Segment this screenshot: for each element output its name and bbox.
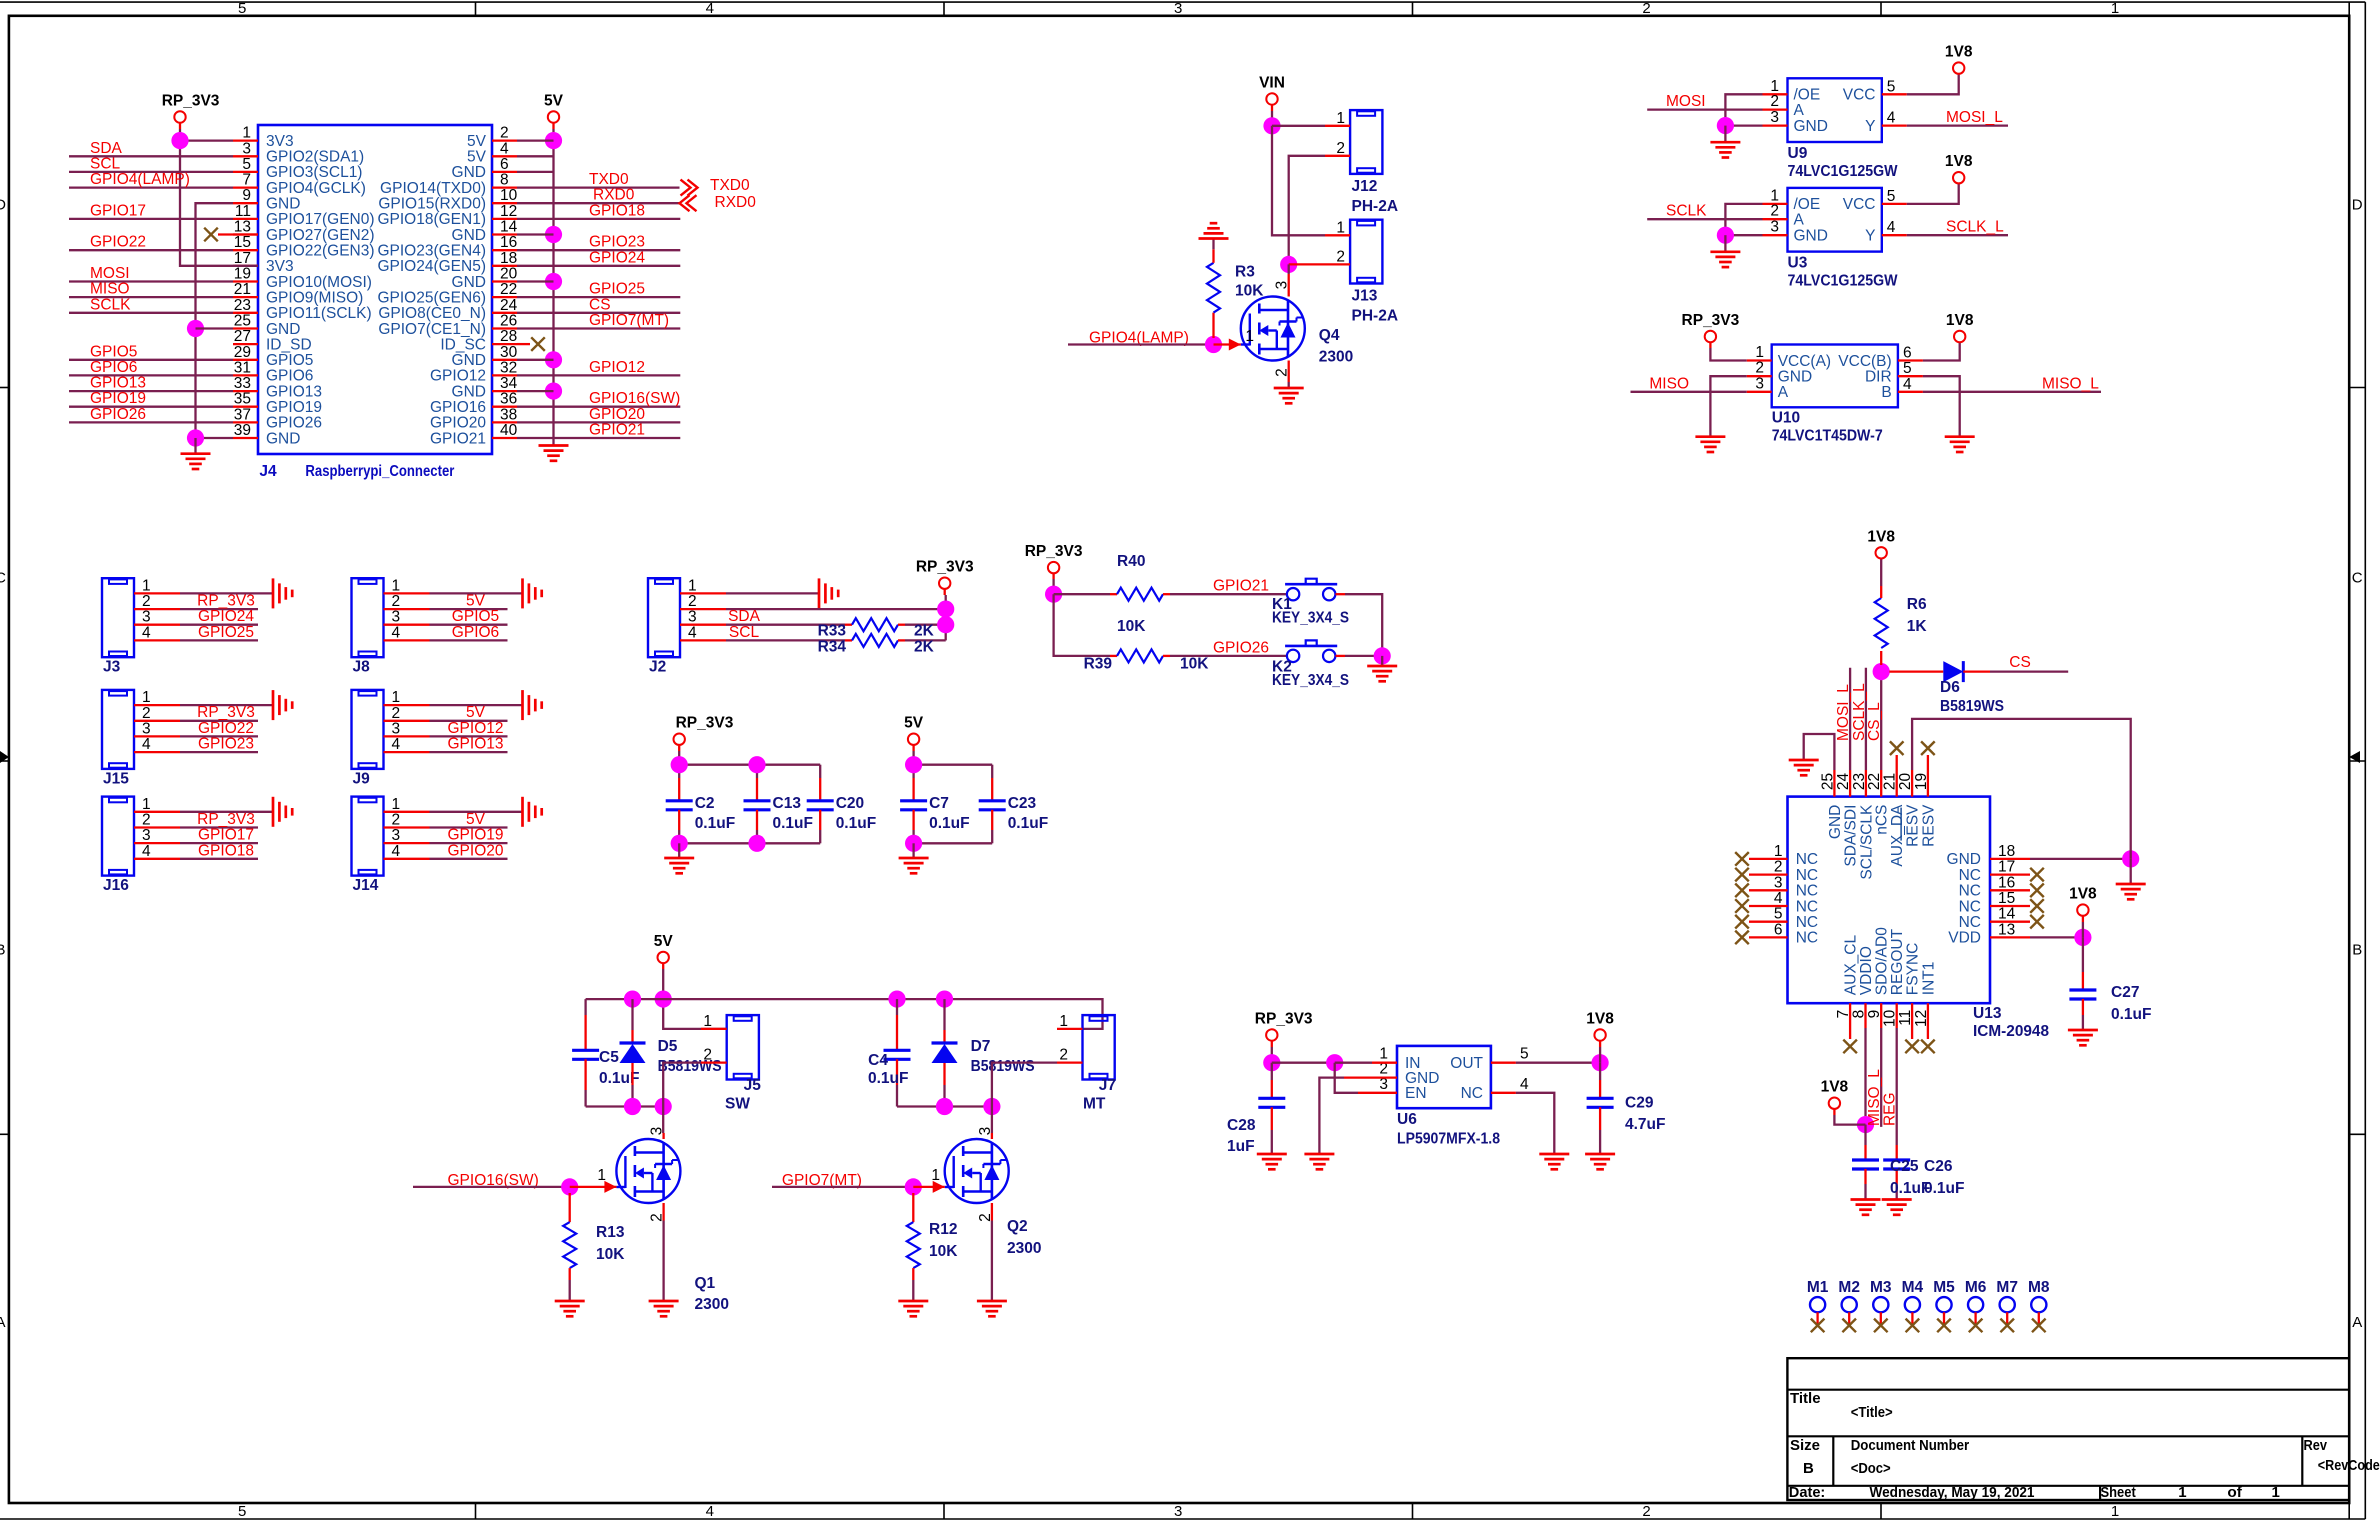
svg-text:B5819WS: B5819WS bbox=[658, 1058, 722, 1075]
svg-text:C27: C27 bbox=[2111, 984, 2139, 1001]
svg-text:20: 20 bbox=[1897, 772, 1914, 790]
svg-text:19: 19 bbox=[234, 266, 251, 283]
svg-text:B5819WS: B5819WS bbox=[971, 1058, 1035, 1075]
svg-text:MOSI_L: MOSI_L bbox=[1946, 109, 2003, 126]
svg-text:J13: J13 bbox=[1352, 288, 1378, 305]
svg-text:U10: U10 bbox=[1772, 410, 1800, 427]
svg-text:2300: 2300 bbox=[1007, 1240, 1041, 1257]
svg-text:A: A bbox=[1794, 102, 1805, 119]
svg-text:1: 1 bbox=[2178, 1484, 2186, 1501]
svg-text:GPIO23: GPIO23 bbox=[589, 234, 645, 251]
svg-text:4: 4 bbox=[392, 624, 401, 641]
svg-text:R13: R13 bbox=[596, 1224, 625, 1241]
svg-text:1: 1 bbox=[1059, 1013, 1068, 1030]
svg-text:C29: C29 bbox=[1625, 1095, 1654, 1112]
svg-text:12: 12 bbox=[1913, 1010, 1930, 1027]
svg-text:GPIO19: GPIO19 bbox=[266, 399, 322, 416]
svg-text:GND: GND bbox=[452, 383, 486, 400]
svg-text:J8: J8 bbox=[353, 659, 371, 676]
svg-text:1: 1 bbox=[392, 796, 401, 813]
svg-text:2: 2 bbox=[1642, 1503, 1650, 1520]
svg-text:B: B bbox=[1881, 384, 1891, 401]
svg-text:2: 2 bbox=[1770, 93, 1779, 110]
svg-text:TXD0: TXD0 bbox=[589, 171, 629, 188]
svg-text:13: 13 bbox=[234, 219, 251, 236]
svg-text:RP_3V3: RP_3V3 bbox=[197, 811, 255, 828]
svg-text:GPIO27(GEN2): GPIO27(GEN2) bbox=[266, 227, 375, 244]
svg-text:30: 30 bbox=[500, 344, 518, 361]
svg-text:GPIO19: GPIO19 bbox=[90, 390, 146, 407]
svg-text:ID_SC: ID_SC bbox=[440, 336, 486, 353]
svg-text:B: B bbox=[0, 942, 6, 959]
svg-text:2300: 2300 bbox=[695, 1296, 729, 1313]
svg-text:18: 18 bbox=[500, 250, 517, 267]
svg-text:2: 2 bbox=[142, 593, 151, 610]
svg-text:GPIO12: GPIO12 bbox=[589, 359, 645, 376]
svg-text:0.1uF: 0.1uF bbox=[773, 815, 813, 832]
svg-text:21: 21 bbox=[234, 281, 251, 298]
svg-text:GND: GND bbox=[1794, 118, 1828, 135]
svg-text:J2: J2 bbox=[649, 659, 666, 676]
svg-text:NC: NC bbox=[1796, 898, 1818, 915]
svg-text:4: 4 bbox=[142, 624, 151, 641]
svg-text:5V: 5V bbox=[466, 811, 486, 828]
svg-text:M2: M2 bbox=[1838, 1279, 1860, 1296]
svg-text:NC: NC bbox=[1959, 883, 1981, 900]
svg-text:GPIO10(MOSI): GPIO10(MOSI) bbox=[266, 274, 372, 291]
svg-text:<Title>: <Title> bbox=[1851, 1404, 1893, 1421]
svg-text:16: 16 bbox=[500, 234, 517, 251]
svg-text:5: 5 bbox=[242, 156, 251, 173]
svg-text:1: 1 bbox=[2111, 1503, 2119, 1520]
svg-text:SDA/SDI: SDA/SDI bbox=[1843, 805, 1860, 867]
svg-text:PH-2A: PH-2A bbox=[1352, 198, 1399, 215]
svg-text:4: 4 bbox=[142, 736, 151, 753]
svg-text:2K: 2K bbox=[914, 623, 935, 640]
svg-text:3: 3 bbox=[1174, 0, 1182, 17]
svg-text:GPIO25(GEN6): GPIO25(GEN6) bbox=[377, 289, 486, 306]
svg-text:D6: D6 bbox=[1940, 679, 1960, 696]
svg-text:0.1uF: 0.1uF bbox=[2111, 1006, 2151, 1023]
svg-text:5V: 5V bbox=[654, 933, 674, 950]
svg-text:4: 4 bbox=[392, 736, 401, 753]
svg-text:EN: EN bbox=[1405, 1085, 1427, 1102]
svg-text:J14: J14 bbox=[353, 877, 379, 894]
svg-text:74LVC1T45DW-7: 74LVC1T45DW-7 bbox=[1772, 428, 1883, 445]
svg-text:1: 1 bbox=[242, 125, 251, 142]
svg-text:VDDIO: VDDIO bbox=[1858, 946, 1875, 995]
svg-text:GPIO20: GPIO20 bbox=[430, 415, 486, 432]
svg-text:1: 1 bbox=[1336, 219, 1345, 236]
svg-text:GPIO22: GPIO22 bbox=[90, 234, 146, 251]
svg-text:GPIO21: GPIO21 bbox=[589, 422, 645, 439]
svg-text:M4: M4 bbox=[1902, 1279, 1924, 1296]
svg-text:1V8: 1V8 bbox=[1946, 312, 1974, 329]
svg-text:LP5907MFX-1.8: LP5907MFX-1.8 bbox=[1397, 1131, 1500, 1148]
svg-text:C5: C5 bbox=[599, 1049, 619, 1066]
svg-text:3: 3 bbox=[1174, 1503, 1182, 1520]
svg-text:3: 3 bbox=[1770, 109, 1779, 126]
svg-text:GPIO12: GPIO12 bbox=[430, 368, 486, 385]
svg-text:2300: 2300 bbox=[1319, 349, 1353, 366]
svg-text:KEY_3X4_S: KEY_3X4_S bbox=[1272, 610, 1349, 627]
svg-text:B: B bbox=[1803, 1460, 1814, 1477]
svg-text:36: 36 bbox=[500, 391, 517, 408]
svg-text:35: 35 bbox=[234, 391, 251, 408]
svg-text:J3: J3 bbox=[103, 659, 121, 676]
svg-text:10K: 10K bbox=[1117, 618, 1146, 635]
svg-text:RXD0: RXD0 bbox=[715, 194, 757, 211]
svg-text:2: 2 bbox=[1274, 368, 1291, 377]
svg-text:0.1uF: 0.1uF bbox=[1924, 1180, 1964, 1197]
svg-text:4: 4 bbox=[1903, 376, 1912, 393]
svg-text:7: 7 bbox=[242, 172, 251, 189]
svg-text:C13: C13 bbox=[773, 795, 802, 812]
svg-text:NC: NC bbox=[1959, 867, 1981, 884]
svg-text:GND: GND bbox=[1947, 851, 1981, 868]
svg-text:GPIO25: GPIO25 bbox=[198, 624, 254, 641]
svg-text:2K: 2K bbox=[914, 638, 935, 655]
svg-text:J7: J7 bbox=[1099, 1077, 1116, 1094]
svg-text:2: 2 bbox=[142, 705, 151, 722]
svg-text:VCC(A): VCC(A) bbox=[1778, 353, 1831, 370]
svg-text:C26: C26 bbox=[1924, 1158, 1953, 1175]
svg-text:6: 6 bbox=[1774, 921, 1783, 938]
svg-text:0.1uF: 0.1uF bbox=[929, 815, 969, 832]
svg-text:10: 10 bbox=[500, 187, 518, 204]
svg-text:8: 8 bbox=[500, 172, 509, 189]
svg-text:GPIO13: GPIO13 bbox=[448, 736, 504, 753]
svg-text:11: 11 bbox=[235, 203, 251, 220]
svg-text:M8: M8 bbox=[2028, 1279, 2050, 1296]
svg-text:CS_L: CS_L bbox=[1866, 702, 1883, 741]
svg-text:GND: GND bbox=[452, 352, 486, 369]
svg-text:1V8: 1V8 bbox=[1867, 528, 1895, 545]
svg-text:C: C bbox=[2352, 570, 2363, 587]
svg-text:C4: C4 bbox=[868, 1052, 888, 1069]
svg-text:GND: GND bbox=[452, 274, 486, 291]
svg-text:R3: R3 bbox=[1235, 264, 1255, 281]
svg-text:C28: C28 bbox=[1227, 1117, 1256, 1134]
svg-text:R12: R12 bbox=[929, 1221, 957, 1238]
svg-text:5: 5 bbox=[238, 1503, 246, 1520]
svg-text:GPIO26: GPIO26 bbox=[90, 406, 146, 423]
svg-text:3: 3 bbox=[392, 827, 401, 844]
svg-text:GND: GND bbox=[452, 164, 486, 181]
svg-text:1V8: 1V8 bbox=[1945, 153, 1973, 170]
svg-text:Sheet: Sheet bbox=[2101, 1484, 2136, 1501]
svg-text:3: 3 bbox=[1274, 281, 1291, 290]
svg-text:RESV: RESV bbox=[1905, 804, 1922, 847]
svg-text:M1: M1 bbox=[1807, 1279, 1829, 1296]
svg-text:of: of bbox=[2227, 1484, 2243, 1501]
svg-text:3: 3 bbox=[242, 140, 251, 157]
svg-text:M7: M7 bbox=[1996, 1279, 2018, 1296]
svg-text:ICM-20948: ICM-20948 bbox=[1973, 1023, 2049, 1040]
svg-text:37: 37 bbox=[234, 406, 251, 423]
svg-text:GPIO22: GPIO22 bbox=[198, 720, 254, 737]
svg-text:2: 2 bbox=[500, 125, 509, 142]
svg-text:GPIO24: GPIO24 bbox=[589, 249, 645, 266]
svg-text:U9: U9 bbox=[1788, 145, 1808, 162]
svg-text:R6: R6 bbox=[1907, 596, 1927, 613]
svg-text:3: 3 bbox=[392, 609, 401, 626]
svg-text:Q4: Q4 bbox=[1319, 327, 1340, 344]
svg-text:1: 1 bbox=[142, 689, 151, 706]
svg-text:R39: R39 bbox=[1084, 655, 1113, 672]
svg-text:Y: Y bbox=[1865, 228, 1875, 245]
svg-text:23: 23 bbox=[234, 297, 251, 314]
svg-text:GPIO14(TXD0): GPIO14(TXD0) bbox=[380, 180, 486, 197]
svg-text:NC: NC bbox=[1796, 914, 1818, 931]
svg-text:NC: NC bbox=[1796, 851, 1818, 868]
svg-text:2: 2 bbox=[1059, 1047, 1068, 1064]
svg-text:C20: C20 bbox=[836, 795, 864, 812]
svg-text:GPIO4(LAMP): GPIO4(LAMP) bbox=[90, 171, 190, 188]
svg-text:2: 2 bbox=[1770, 203, 1779, 220]
svg-text:4: 4 bbox=[706, 1503, 714, 1520]
svg-text:18: 18 bbox=[1998, 843, 2015, 860]
svg-text:5: 5 bbox=[1887, 188, 1896, 205]
svg-text:Document Number: Document Number bbox=[1851, 1437, 1970, 1454]
svg-text:GND: GND bbox=[266, 430, 300, 447]
svg-text:GPIO18(GEN1): GPIO18(GEN1) bbox=[377, 211, 486, 228]
svg-text:3: 3 bbox=[1774, 874, 1783, 891]
svg-text:5V: 5V bbox=[467, 149, 487, 166]
svg-text:J9: J9 bbox=[353, 770, 371, 787]
svg-text:1uF: 1uF bbox=[1227, 1138, 1255, 1155]
svg-text:RP_3V3: RP_3V3 bbox=[676, 715, 734, 732]
svg-text:R34: R34 bbox=[818, 638, 847, 655]
svg-text:0.1uF: 0.1uF bbox=[868, 1070, 908, 1087]
svg-text:GPIO8(CE0_N): GPIO8(CE0_N) bbox=[378, 305, 486, 322]
svg-text:RP_3V3: RP_3V3 bbox=[162, 93, 220, 110]
svg-text:<RevCode: <RevCode bbox=[2318, 1457, 2380, 1474]
svg-text:SCLK_L: SCLK_L bbox=[1946, 219, 2004, 236]
svg-text:1: 1 bbox=[2111, 0, 2119, 17]
svg-text:GPIO15(RXD0): GPIO15(RXD0) bbox=[378, 196, 486, 213]
svg-text:4: 4 bbox=[142, 843, 151, 860]
svg-text:GND: GND bbox=[1778, 369, 1812, 386]
svg-text:1: 1 bbox=[1336, 110, 1345, 127]
svg-text:GPIO6: GPIO6 bbox=[90, 359, 137, 376]
svg-text:26: 26 bbox=[500, 313, 517, 330]
svg-text:RP_3V3: RP_3V3 bbox=[197, 593, 255, 610]
svg-text:32: 32 bbox=[500, 359, 517, 376]
svg-text:GPIO21: GPIO21 bbox=[1213, 578, 1269, 595]
svg-text:KEY_3X4_S: KEY_3X4_S bbox=[1272, 672, 1349, 689]
svg-text:25: 25 bbox=[234, 313, 251, 330]
svg-text:1: 1 bbox=[1245, 328, 1254, 345]
svg-text:GPIO23(GEN4): GPIO23(GEN4) bbox=[377, 243, 486, 260]
svg-text:22: 22 bbox=[1866, 773, 1883, 790]
svg-text:GPIO16: GPIO16 bbox=[430, 399, 486, 416]
svg-text:2: 2 bbox=[392, 812, 401, 829]
svg-text:A: A bbox=[0, 1314, 6, 1331]
svg-text:27: 27 bbox=[234, 328, 251, 345]
svg-text:GPIO20: GPIO20 bbox=[589, 406, 645, 423]
svg-text:5: 5 bbox=[1887, 78, 1896, 95]
svg-text:17: 17 bbox=[234, 250, 251, 267]
svg-text:31: 31 bbox=[234, 359, 251, 376]
svg-text:MISO: MISO bbox=[90, 281, 130, 298]
svg-text:J15: J15 bbox=[103, 770, 129, 787]
svg-text:1: 1 bbox=[392, 689, 401, 706]
svg-text:13: 13 bbox=[1998, 921, 2015, 938]
svg-text:INT1: INT1 bbox=[1920, 962, 1937, 996]
svg-text:GPIO3(SCL1): GPIO3(SCL1) bbox=[266, 164, 362, 181]
svg-text:1K: 1K bbox=[1907, 618, 1928, 635]
svg-text:CS: CS bbox=[589, 296, 611, 313]
svg-text:74LVC1G125GW: 74LVC1G125GW bbox=[1788, 273, 1898, 290]
svg-text:25: 25 bbox=[1819, 773, 1836, 790]
svg-text:20: 20 bbox=[500, 266, 518, 283]
svg-text:GPIO22(GEN3): GPIO22(GEN3) bbox=[266, 243, 375, 260]
svg-text:28: 28 bbox=[500, 328, 517, 345]
svg-text:RESV: RESV bbox=[1920, 804, 1937, 847]
svg-text:34: 34 bbox=[500, 375, 518, 392]
svg-text:3V3: 3V3 bbox=[266, 258, 294, 275]
svg-text:2: 2 bbox=[688, 593, 697, 610]
svg-text:U6: U6 bbox=[1397, 1111, 1417, 1128]
svg-text:4: 4 bbox=[392, 843, 401, 860]
svg-text:SDA: SDA bbox=[90, 140, 123, 157]
svg-text:39: 39 bbox=[234, 422, 251, 439]
svg-text:RP_3V3: RP_3V3 bbox=[1025, 543, 1083, 560]
svg-text:3: 3 bbox=[392, 720, 401, 737]
svg-text:GPIO26: GPIO26 bbox=[1213, 639, 1269, 656]
svg-text:24: 24 bbox=[500, 297, 518, 314]
svg-text:GPIO16(SW): GPIO16(SW) bbox=[589, 390, 680, 407]
svg-text:4: 4 bbox=[1887, 110, 1896, 127]
svg-text:ID_SD: ID_SD bbox=[266, 336, 312, 353]
svg-text:GND: GND bbox=[452, 227, 486, 244]
svg-text:GPIO5: GPIO5 bbox=[266, 352, 313, 369]
svg-text:J5: J5 bbox=[744, 1077, 762, 1094]
svg-text:3V3: 3V3 bbox=[266, 133, 294, 150]
svg-text:9: 9 bbox=[242, 187, 251, 204]
svg-text:14: 14 bbox=[1998, 906, 2016, 923]
svg-text:10K: 10K bbox=[1180, 655, 1209, 672]
svg-text:1: 1 bbox=[688, 577, 697, 594]
svg-text:GPIO24(GEN5): GPIO24(GEN5) bbox=[377, 258, 486, 275]
svg-text:GPIO5: GPIO5 bbox=[90, 343, 137, 360]
svg-text:1: 1 bbox=[142, 796, 151, 813]
svg-text:GPIO6: GPIO6 bbox=[452, 624, 499, 641]
svg-text:1: 1 bbox=[1755, 344, 1764, 361]
svg-text:MOSI: MOSI bbox=[90, 265, 130, 282]
svg-text:DIR: DIR bbox=[1865, 369, 1892, 386]
svg-text:22: 22 bbox=[500, 281, 517, 298]
svg-text:2: 2 bbox=[1755, 360, 1764, 377]
svg-text:GPIO12: GPIO12 bbox=[448, 720, 504, 737]
svg-text:GPIO17(GEN0): GPIO17(GEN0) bbox=[266, 211, 375, 228]
svg-text:GPIO2(SDA1): GPIO2(SDA1) bbox=[266, 149, 364, 166]
svg-text:1: 1 bbox=[392, 577, 401, 594]
svg-text:A: A bbox=[2352, 1314, 2362, 1331]
svg-text:4: 4 bbox=[706, 0, 714, 17]
svg-text:38: 38 bbox=[500, 406, 517, 423]
svg-text:SCLK: SCLK bbox=[1666, 203, 1707, 220]
svg-text:GND: GND bbox=[266, 321, 300, 338]
svg-text:C: C bbox=[0, 570, 6, 587]
svg-text:A: A bbox=[1794, 212, 1805, 229]
svg-text:NC: NC bbox=[1959, 914, 1981, 931]
svg-text:nCS: nCS bbox=[1874, 805, 1891, 835]
svg-text:8: 8 bbox=[1851, 1010, 1868, 1019]
svg-text:J4: J4 bbox=[259, 463, 277, 480]
svg-text:Date:: Date: bbox=[1789, 1484, 1826, 1501]
svg-text:GPIO17: GPIO17 bbox=[90, 202, 146, 219]
svg-text:C25: C25 bbox=[1890, 1158, 1919, 1175]
svg-text:GPIO7(CE1_N): GPIO7(CE1_N) bbox=[378, 321, 486, 338]
svg-text:5V: 5V bbox=[467, 133, 487, 150]
svg-text:29: 29 bbox=[234, 344, 251, 361]
svg-text:3: 3 bbox=[649, 1127, 666, 1136]
svg-text:MOSI_L: MOSI_L bbox=[1835, 684, 1852, 741]
svg-text:NC: NC bbox=[1796, 867, 1818, 884]
svg-text:SW: SW bbox=[725, 1096, 750, 1113]
svg-text:10K: 10K bbox=[596, 1246, 625, 1263]
svg-text:GPIO11(SCLK): GPIO11(SCLK) bbox=[266, 305, 372, 322]
svg-text:0.1uF: 0.1uF bbox=[836, 815, 876, 832]
svg-text:J12: J12 bbox=[1352, 178, 1378, 195]
svg-text:NC: NC bbox=[1796, 883, 1818, 900]
svg-text:B: B bbox=[2352, 942, 2362, 959]
svg-text:11: 11 bbox=[1897, 1010, 1914, 1026]
svg-text:19: 19 bbox=[1913, 773, 1930, 790]
svg-text:B5819WS: B5819WS bbox=[1940, 698, 2004, 715]
svg-text:1V8: 1V8 bbox=[2069, 886, 2097, 903]
svg-text:RXD0: RXD0 bbox=[593, 187, 635, 204]
svg-text:12: 12 bbox=[500, 203, 517, 220]
svg-text:6: 6 bbox=[1903, 345, 1912, 362]
svg-text:MISO: MISO bbox=[1649, 375, 1689, 392]
svg-text:CS: CS bbox=[2009, 654, 2031, 671]
svg-text:TXD0: TXD0 bbox=[710, 177, 750, 194]
svg-text:Q2: Q2 bbox=[1007, 1218, 1028, 1235]
svg-text:MISO_L: MISO_L bbox=[1866, 1069, 1883, 1126]
svg-text:Y: Y bbox=[1865, 118, 1875, 135]
svg-text:5: 5 bbox=[238, 0, 246, 17]
svg-text:2: 2 bbox=[392, 593, 401, 610]
svg-text:5: 5 bbox=[1520, 1046, 1529, 1063]
svg-text:16: 16 bbox=[1998, 874, 2015, 891]
svg-text:0.1uF: 0.1uF bbox=[695, 815, 735, 832]
svg-text:GPIO4(GCLK): GPIO4(GCLK) bbox=[266, 180, 366, 197]
svg-text:REG: REG bbox=[1882, 1092, 1899, 1126]
svg-text:40: 40 bbox=[500, 422, 518, 439]
svg-text:GPIO25: GPIO25 bbox=[589, 281, 645, 298]
svg-text:FSYNC: FSYNC bbox=[1905, 943, 1922, 996]
svg-text:GPIO9(MISO): GPIO9(MISO) bbox=[266, 289, 363, 306]
svg-text:Q1: Q1 bbox=[695, 1275, 716, 1292]
svg-text:5V: 5V bbox=[466, 593, 486, 610]
svg-text:10K: 10K bbox=[1235, 283, 1264, 300]
svg-text:14: 14 bbox=[500, 219, 518, 236]
svg-text:VDD: VDD bbox=[1948, 930, 1981, 947]
svg-text:3: 3 bbox=[1770, 219, 1779, 236]
svg-text:<Doc>: <Doc> bbox=[1851, 1460, 1891, 1477]
svg-text:D: D bbox=[2352, 197, 2363, 214]
svg-text:M5: M5 bbox=[1933, 1279, 1955, 1296]
svg-text:3: 3 bbox=[688, 609, 697, 626]
svg-text:5: 5 bbox=[1903, 360, 1912, 377]
svg-text:10K: 10K bbox=[929, 1243, 958, 1260]
svg-text:3: 3 bbox=[977, 1127, 994, 1136]
svg-text:OUT: OUT bbox=[1450, 1055, 1483, 1072]
svg-text:RP_3V3: RP_3V3 bbox=[1682, 312, 1740, 329]
